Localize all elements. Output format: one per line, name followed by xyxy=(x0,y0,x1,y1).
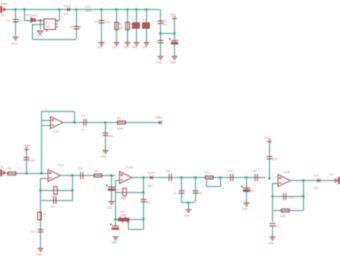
svg-text:C3: C3 xyxy=(95,20,99,24)
capacitor C24 polarized xyxy=(241,186,250,192)
svg-text:R4: R4 xyxy=(117,116,121,120)
svg-text:NET: NET xyxy=(148,184,154,188)
svg-text:PWR: PWR xyxy=(1,2,9,6)
svg-text:C1: C1 xyxy=(7,19,11,23)
ferrite bead L2 xyxy=(143,23,150,29)
capacitor C18 xyxy=(141,200,147,202)
wire IC2A output xyxy=(63,122,160,124)
svg-text:1n: 1n xyxy=(174,191,177,195)
wire jumper loop left xyxy=(128,221,130,230)
junction fb2 rail2 left xyxy=(114,218,116,220)
wire filter rail xyxy=(181,202,195,204)
svg-text:U1: U1 xyxy=(45,21,49,25)
wire branch x101 xyxy=(101,10,103,43)
corner rail to C8 xyxy=(160,10,162,57)
junction rail x15 xyxy=(14,8,16,10)
svg-text:100k: 100k xyxy=(121,196,127,200)
wire IC2A +in xyxy=(41,120,51,122)
svg-text:GND: GND xyxy=(11,42,17,46)
junction x174 mid xyxy=(173,32,175,34)
wire IC2A feedback right xyxy=(74,112,76,123)
wire EN pin xyxy=(33,24,44,26)
capacitor C23 xyxy=(231,174,233,181)
wire branch x146 xyxy=(146,10,148,43)
svg-text:100k: 100k xyxy=(51,194,57,198)
svg-text:10u: 10u xyxy=(31,230,36,234)
wire C28 to gnd xyxy=(272,226,274,237)
ground at x146 xyxy=(144,43,150,46)
resistor R8 xyxy=(94,174,102,177)
junction bias/input xyxy=(25,172,27,174)
connector X2 output xyxy=(334,178,340,184)
wire U1 output xyxy=(56,20,60,22)
svg-text:R8: R8 xyxy=(94,169,98,173)
op-amp IC1A xyxy=(48,170,61,182)
wire IC1A -in corner xyxy=(40,178,43,180)
wire gain leg xyxy=(40,201,42,249)
ground C28 xyxy=(270,237,276,240)
wire IC1A -in stub xyxy=(43,178,48,180)
wire fb rail1 xyxy=(40,190,73,192)
svg-text:GND: GND xyxy=(170,62,176,65)
wire C22 branch xyxy=(195,178,197,203)
svg-text:3V3: 3V3 xyxy=(64,12,69,16)
svg-text:VCC: VCC xyxy=(170,13,176,17)
svg-text:1u: 1u xyxy=(78,25,82,29)
wire fb3 right xyxy=(303,181,305,211)
wire VCC branch xyxy=(174,21,176,56)
junction rail x59 xyxy=(58,8,60,10)
wire C12 branch xyxy=(105,123,107,151)
ground C9 xyxy=(158,57,164,60)
wire IC1B -in stub xyxy=(116,180,120,182)
svg-text:L1: L1 xyxy=(133,18,136,22)
svg-text:VOUT: VOUT xyxy=(64,4,72,8)
svg-text:GND: GND xyxy=(112,46,118,49)
capacitor C27 xyxy=(284,193,286,200)
resistor R9 xyxy=(123,188,127,196)
connector JP1 VIN xyxy=(0,7,7,13)
wire bias branch xyxy=(26,152,28,173)
ground at x116 xyxy=(114,43,120,46)
svg-text:VREF: VREF xyxy=(24,144,32,148)
ground gain leg xyxy=(38,249,44,252)
junction IC1A out xyxy=(71,174,73,176)
capacitor C17 polarized xyxy=(106,185,115,191)
svg-text:10n: 10n xyxy=(198,191,203,195)
capacitor C11 xyxy=(84,119,86,126)
svg-text:10u: 10u xyxy=(18,19,23,23)
svg-text:10p: 10p xyxy=(289,195,294,199)
svg-text:100n: 100n xyxy=(108,134,114,138)
svg-text:100n: 100n xyxy=(272,157,278,161)
junction x105 xyxy=(104,121,106,123)
wire branch x136 xyxy=(136,10,138,43)
svg-text:C20: C20 xyxy=(166,169,172,173)
op-amp IC2B xyxy=(278,175,291,187)
junction fb2 rail2 right xyxy=(142,218,144,220)
ground GND1 xyxy=(13,37,19,40)
svg-text:GND: GND xyxy=(101,156,107,159)
junction x220 xyxy=(219,176,221,178)
junction x195 xyxy=(194,176,196,178)
wire IC2B -in down xyxy=(272,183,274,222)
svg-text:10p: 10p xyxy=(146,200,151,204)
svg-text:R5: R5 xyxy=(8,166,12,170)
supply VCC opamp C xyxy=(267,140,272,144)
capacitor C26 xyxy=(267,157,273,159)
junction IC2B +in xyxy=(268,177,270,179)
wire R10 bypass loop xyxy=(207,178,221,187)
wire branch x116 xyxy=(116,10,118,43)
capacitor C28 xyxy=(270,224,276,226)
svg-text:IC1A: IC1A xyxy=(58,163,64,167)
net stub OUT xyxy=(317,179,320,182)
resistor R6 xyxy=(54,187,58,195)
svg-text:GND: GND xyxy=(242,208,248,211)
junction rail x116 xyxy=(115,8,117,10)
capacitor C2 xyxy=(74,27,80,29)
wire gnd stub xyxy=(40,20,42,30)
wire C17 branch xyxy=(111,176,113,202)
wire branch x127 xyxy=(127,10,129,43)
supply VCC top xyxy=(172,17,177,21)
junction fb3 rail1 left xyxy=(271,195,273,197)
svg-text:10u: 10u xyxy=(163,23,168,27)
svg-text:NET: NET xyxy=(314,186,320,190)
junction rail x24 xyxy=(23,8,25,10)
resistor R10 xyxy=(205,176,213,179)
junction fb rail1 right xyxy=(71,189,73,191)
capacitor C1 xyxy=(13,20,19,22)
svg-text:GAIN: GAIN xyxy=(120,213,126,217)
ground C12 xyxy=(103,151,109,154)
svg-text:C2: C2 xyxy=(70,25,74,29)
wire fb3 rail2 xyxy=(272,210,303,212)
capacitor C22 xyxy=(193,191,199,193)
resistor R7 xyxy=(38,212,42,220)
wire output row xyxy=(291,180,335,182)
connector X1 input xyxy=(0,170,6,176)
wire C21 branch xyxy=(181,178,183,203)
junction out C xyxy=(302,179,304,181)
junction x246 xyxy=(245,176,247,178)
svg-text:GND: GND xyxy=(132,46,138,49)
svg-text:C23: C23 xyxy=(227,169,233,173)
ground C24 xyxy=(244,203,250,206)
wire IB fb right xyxy=(143,178,145,220)
wire U1 output up xyxy=(59,10,61,21)
op-amp IC1B xyxy=(120,172,133,184)
junction vref/input xyxy=(40,172,42,174)
svg-text:VCC: VCC xyxy=(264,136,270,140)
wire input row xyxy=(6,173,48,175)
junction fb rail1 left xyxy=(39,189,41,191)
wire IC2B -in stub xyxy=(272,183,278,185)
svg-text:L2: L2 xyxy=(143,18,146,22)
ground GND2 xyxy=(37,31,42,34)
svg-text:GND: GND xyxy=(156,62,162,65)
junction D1 out xyxy=(39,19,41,21)
capacitor C16 xyxy=(81,172,83,179)
ground C17 xyxy=(109,202,115,205)
junction rail x136 xyxy=(135,8,137,10)
svg-text:JP1: JP1 xyxy=(1,13,7,17)
junction x160 mid xyxy=(159,32,161,34)
svg-text:IC2B: IC2B xyxy=(284,170,290,174)
ground C10 xyxy=(172,57,178,60)
junction x181 xyxy=(180,176,182,178)
svg-text:IC1B: IC1B xyxy=(127,166,133,170)
wire IC2A -in xyxy=(41,125,51,127)
IC U1 regulator body xyxy=(43,19,58,32)
resistor R4 xyxy=(118,121,126,124)
wire IC2A node vertical xyxy=(41,112,43,174)
svg-text:TPS7A49: TPS7A49 xyxy=(25,14,37,18)
supply flag VOUT xyxy=(67,8,70,11)
wire IC1B out row xyxy=(132,177,266,179)
svg-text:X2: X2 xyxy=(330,172,334,176)
supply VREF bias xyxy=(24,148,29,152)
svg-text:100n: 100n xyxy=(30,159,36,163)
junction rail x127 xyxy=(126,8,128,10)
svg-text:OUTA: OUTA xyxy=(148,171,155,175)
junction fb3 rail1 right xyxy=(302,195,304,197)
junction IC1B out xyxy=(142,176,144,178)
capacitor C9 xyxy=(158,41,164,43)
wire feedback right / C2 branch xyxy=(76,10,78,40)
svg-text:10k: 10k xyxy=(119,26,124,30)
svg-text:R10: R10 xyxy=(205,171,211,175)
svg-text:GND: GND xyxy=(36,254,42,257)
svg-text:GND: GND xyxy=(107,207,113,210)
resistor R11 xyxy=(281,209,289,212)
junction rail x146 xyxy=(145,8,147,10)
wire fb rail2 xyxy=(40,200,73,202)
svg-text:1u: 1u xyxy=(81,128,85,132)
ground at x127 xyxy=(125,43,131,46)
svg-text:10p: 10p xyxy=(51,205,56,209)
junction filter gnd xyxy=(187,201,189,203)
ground at x101 xyxy=(99,43,105,46)
wire fb2 rail1 xyxy=(116,192,144,194)
svg-text:100k: 100k xyxy=(280,214,286,218)
wire C1 branch xyxy=(15,10,17,37)
wire feedback left xyxy=(32,24,34,39)
capacitor C25 xyxy=(255,174,257,181)
svg-text:GND: GND xyxy=(268,242,274,245)
svg-text:GND: GND xyxy=(142,46,148,49)
svg-text:IC2A: IC2A xyxy=(53,130,59,134)
wire fb3 rail1 xyxy=(272,196,303,198)
capacitor C12 xyxy=(103,133,109,135)
svg-text:C25: C25 xyxy=(252,169,258,173)
wire jumper loop right xyxy=(143,220,145,230)
capacitor C3 xyxy=(99,21,105,23)
svg-text:GND: GND xyxy=(37,34,43,38)
svg-text:GND: GND xyxy=(184,215,190,218)
resistor R2 xyxy=(126,22,130,30)
capacitor C10 polarized xyxy=(169,38,178,44)
svg-text:C16: C16 xyxy=(78,167,84,171)
capacitor C8 xyxy=(158,21,164,23)
svg-text:C11: C11 xyxy=(81,114,86,118)
svg-text:LDO: LDO xyxy=(45,25,50,29)
wire filter gnd stub xyxy=(188,202,190,209)
junction rail x101 xyxy=(100,8,102,10)
wire IC1A out row xyxy=(61,175,116,177)
op-amp IC2A xyxy=(51,117,64,129)
wire jumper loop bottom xyxy=(129,229,144,231)
wire fb2 rail2 xyxy=(116,219,144,221)
junction x110 xyxy=(110,174,112,176)
svg-text:OUT: OUT xyxy=(314,173,320,177)
svg-text:10u: 10u xyxy=(275,224,280,228)
junction IC2A fb xyxy=(73,121,75,123)
svg-text:R1: R1 xyxy=(119,22,123,26)
svg-text:10u: 10u xyxy=(114,188,119,192)
diode D1 xyxy=(31,18,35,22)
junction fb2 rail1 xyxy=(142,191,144,193)
wire x160 to x174 xyxy=(160,33,174,35)
capacitor C21 xyxy=(179,191,185,193)
capacitor C20 xyxy=(169,174,171,181)
junction rail x76 xyxy=(75,8,77,10)
svg-text:100n: 100n xyxy=(105,20,111,24)
wire IC1A -in down xyxy=(40,178,42,201)
resistor R5 xyxy=(8,172,16,175)
capacitor C14 xyxy=(54,197,56,204)
capacitor C13 xyxy=(24,158,30,160)
ferrite bead L1 xyxy=(133,23,140,29)
wire VCC down xyxy=(269,144,271,178)
svg-text:100k: 100k xyxy=(117,127,124,131)
svg-text:SJ1: SJ1 xyxy=(120,209,125,213)
wire regulator input xyxy=(24,20,44,22)
ground filter xyxy=(186,210,192,213)
net stub VREF xyxy=(159,121,162,124)
svg-text:C8: C8 xyxy=(163,19,167,23)
svg-text:10u: 10u xyxy=(249,189,254,193)
ground at x136 xyxy=(134,43,140,46)
svg-text:IN: IN xyxy=(1,165,4,169)
wire to regulator xyxy=(24,10,26,21)
wire IC1A fb right xyxy=(72,176,74,201)
svg-text:GND: GND xyxy=(112,242,118,245)
svg-text:GND: GND xyxy=(97,46,103,49)
svg-text:+3V3: +3V3 xyxy=(85,9,92,13)
svg-text:GND: GND xyxy=(123,46,129,49)
capacitor C19 polarized xyxy=(110,224,119,230)
resistor R1 xyxy=(115,22,119,30)
capacitor C15 xyxy=(38,230,44,232)
wire C24 branch xyxy=(246,178,248,203)
jumper SJ1 xyxy=(119,217,130,223)
wire VIN rail xyxy=(7,9,160,11)
wire IC1B -in down xyxy=(115,181,117,226)
wire feedback bottom xyxy=(33,39,77,41)
ground C19 xyxy=(113,237,119,240)
net stub OUTA xyxy=(150,176,153,179)
wire IC2A feedback top xyxy=(41,111,74,113)
svg-text:VREF: VREF xyxy=(155,116,163,120)
